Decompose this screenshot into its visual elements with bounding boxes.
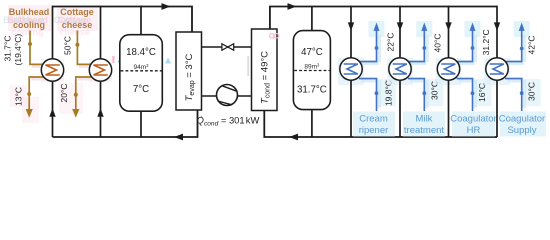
consumer unit 4: Coagulator Supply [484, 6, 546, 137]
up arrow on blue outlet 3 [470, 23, 476, 31]
down arrow on orange return 2 [72, 109, 79, 118]
svg-text:cheese: cheese [62, 20, 93, 30]
svg-text:18.4°C: 18.4°C [126, 47, 156, 58]
consumer riser pipe 4 [496, 6, 498, 137]
junction dot blue outlet 1 [375, 46, 379, 50]
heat exchanger circle blue 2 [389, 58, 411, 80]
svg-text:16°C: 16°C [477, 83, 487, 102]
svg-text:31.7°C: 31.7°C [297, 85, 327, 96]
ghost gray bar left of condenser column [247, 56, 249, 76]
evaporator column [176, 32, 202, 110]
refrigerant wire evaporator to compressor [202, 95, 252, 97]
left riser pipe 2 (cottage HX) [100, 6, 102, 137]
svg-text:30°C: 30°C [526, 82, 536, 101]
heat exchanger HX1 (bulkhead) [41, 59, 63, 81]
svg-text:20°C: 20°C [59, 84, 69, 103]
down arrow on consumer riser 3 [445, 22, 451, 31]
evaporator tank drain wire [140, 111, 142, 137]
cyan highlight behind 19.8°C label [380, 79, 396, 106]
pink highlight behind orange HX2 [89, 59, 112, 82]
svg-text:31.7°C: 31.7°C [3, 35, 13, 61]
tank level dashed line [294, 70, 329, 72]
svg-text:treatment: treatment [404, 125, 444, 136]
highlight box behind Cottage cheese label [57, 5, 98, 31]
junction dot on orange supply 1 [28, 42, 32, 46]
condenser column [252, 29, 278, 111]
svg-text:Bulkhead: Bulkhead [9, 7, 50, 17]
svg-text:Supply: Supply [507, 125, 536, 136]
blue inlet wire circuit 4 [505, 79, 522, 111]
heat exchanger HX2 (cottage) [89, 59, 111, 81]
junction dot on orange return 1 [27, 92, 31, 96]
junction dot blue inlet 3 [471, 91, 475, 95]
junction dot on orange return 2 [74, 93, 78, 97]
refrigerant wire evaporator to valve [202, 46, 252, 48]
consumer unit 2: Milk treatment [387, 6, 445, 137]
pink highlight behind 13°C label [10, 85, 27, 107]
heat exchanger circle blue 1 [340, 58, 362, 80]
svg-text:ripener: ripener [359, 125, 389, 136]
ghost pink tick left of evaporator tank [112, 56, 114, 63]
pink highlight behind bulkhead return arrow [22, 97, 39, 123]
svg-text:42°C: 42°C [527, 36, 537, 55]
up arrow on riser 2 [97, 108, 103, 117]
pink highlight behind orange HX1 [41, 59, 64, 82]
cyan highlight behind blue top arrow 1 [369, 21, 385, 37]
svg-text:13°C: 13°C [14, 87, 24, 106]
blue inlet wire circuit 2 [408, 79, 424, 111]
blue inlet wire circuit 1 [359, 79, 377, 111]
up arrow on riser 1 [49, 108, 55, 117]
ghost cyan triangle at evaporator tank left shoulder [118, 57, 124, 63]
junction dot blue outlet 4 [520, 47, 524, 51]
orange supply wire circuit 1 [30, 31, 43, 65]
compressor U1 [217, 85, 238, 106]
cold storage tank (evaporator side) [120, 35, 163, 112]
svg-text:Coagulator: Coagulator [450, 114, 496, 125]
junction dot blue inlet 1 [375, 91, 379, 95]
flow arrow left on bottom-left header [174, 134, 183, 141]
ghost cyan triangle at evaporator tank right shoulder [165, 58, 171, 64]
up arrow on blue outlet 4 [519, 23, 525, 31]
blue outlet wire circuit 1 [359, 31, 377, 62]
warm water bottom header wire [264, 111, 497, 138]
blue outlet wire circuit 2 [408, 31, 424, 62]
consumer riser pipe 3 [448, 6, 450, 137]
consumer riser pipe 2 [399, 6, 401, 137]
down arrow on consumer riser 2 [397, 22, 403, 31]
warm water top header wire [270, 7, 497, 30]
blue inlet wire circuit 3 [457, 79, 473, 111]
flow arrow right on top-right header [288, 3, 297, 10]
cyan highlight behind blue HX1 [338, 58, 364, 85]
chilled water bottom header wire [53, 110, 198, 137]
blue halo circuit 2 [410, 35, 426, 108]
consumer riser pipe 1 [350, 6, 352, 137]
pink halo behind orange circuit 1 [32, 66, 45, 79]
svg-text:Cottage: Cottage [60, 7, 94, 17]
junction dot blue inlet 2 [422, 91, 426, 95]
consumer unit 1: Cream ripener [338, 6, 396, 137]
junction dot blue outlet 2 [422, 46, 426, 50]
flow arrow right on top-left header [162, 3, 171, 10]
svg-text:31.2°C: 31.2°C [481, 29, 491, 55]
svg-text:cooling: cooling [13, 20, 45, 30]
orange return wire circuit 1 [29, 77, 43, 110]
svg-text:(19.4°C): (19.4°C) [13, 34, 23, 66]
blue outlet wire circuit 3 [457, 31, 473, 62]
chilled water top header wire [53, 7, 193, 33]
svg-text:22°C: 22°C [386, 33, 396, 52]
junction dot blue inlet 4 [520, 91, 524, 95]
heat exchanger circle blue 3 [437, 58, 459, 80]
svg-text:40°C: 40°C [433, 34, 443, 53]
tank level dashed line [121, 70, 162, 72]
orange supply wire circuit 2 [77, 31, 91, 65]
consumer unit 3: Coagulator HR [436, 6, 497, 137]
blue halo circuit 4 [507, 35, 524, 108]
svg-text:50°C: 50°C [63, 36, 73, 55]
svg-text:7°C: 7°C [133, 84, 149, 95]
junction dot on orange supply 2 [75, 43, 79, 47]
ghost pink marks near condenser column top [270, 34, 274, 38]
pink highlight behind 20°C label and cottage return arrow [59, 83, 83, 114]
down arrow on consumer riser 4 [494, 22, 500, 31]
flow arrow left on bottom-right header [289, 134, 298, 141]
down arrow on consumer riser 1 [348, 22, 354, 31]
orange return wire circuit 2 [76, 77, 92, 110]
svg-text:HR: HR [467, 125, 481, 136]
left riser pipe 1 (bulkhead HX) [52, 6, 54, 137]
blue outlet wire circuit 4 [505, 31, 522, 62]
warm storage tank (condenser side) [293, 31, 330, 110]
junction dot blue outlet 3 [471, 46, 475, 50]
down arrow on orange return 1 [26, 109, 33, 118]
svg-text:Milk: Milk [416, 114, 433, 125]
highlight box behind Bulkhead cooling label [8, 5, 53, 31]
condenser tank drain wire [311, 109, 313, 137]
up arrow on blue outlet 1 [374, 23, 380, 31]
pink halo behind orange circuit 2 [78, 66, 92, 79]
up arrow on blue outlet 2 [421, 23, 427, 31]
cyan highlight behind Cream ripener label [353, 112, 395, 137]
svg-text:47°C: 47°C [301, 47, 323, 58]
heat exchanger circle blue 4 [486, 58, 508, 80]
evaporator tank feed wire [140, 6, 142, 35]
svg-text:Cream: Cream [359, 114, 388, 125]
blue halo circuit 3 [459, 35, 475, 108]
svg-text:Coagulator: Coagulator [499, 114, 545, 125]
expansion valve [222, 44, 228, 50]
condenser tank feed wire [311, 7, 313, 31]
blue halo circuit 1 [361, 35, 379, 108]
